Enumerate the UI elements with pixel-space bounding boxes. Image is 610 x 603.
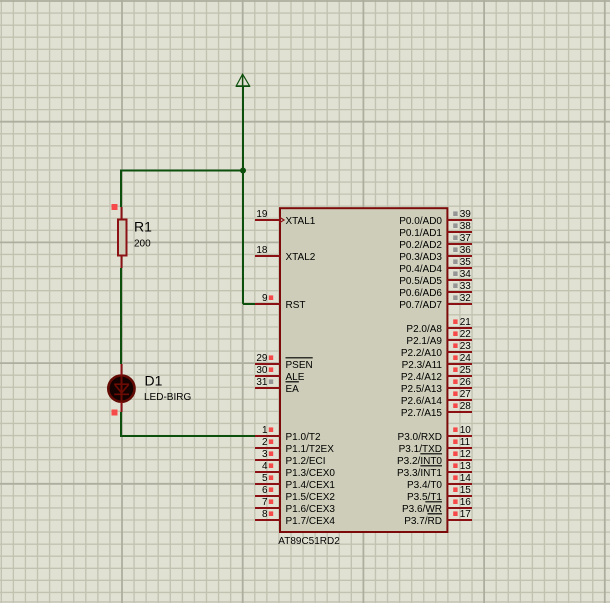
- svg-text:33: 33: [460, 281, 472, 292]
- svg-text:21: 21: [460, 317, 472, 328]
- svg-text:P3.7/RD: P3.7/RD: [404, 516, 442, 527]
- svg-text:P0.6/AD6: P0.6/AD6: [399, 288, 442, 299]
- svg-text:EA: EA: [286, 384, 300, 395]
- svg-text:P2.2/A10: P2.2/A10: [401, 348, 443, 359]
- svg-text:P2.5/A13: P2.5/A13: [401, 384, 443, 395]
- svg-text:8: 8: [262, 509, 268, 520]
- svg-text:14: 14: [460, 473, 472, 484]
- svg-text:P0.3/AD3: P0.3/AD3: [399, 252, 442, 263]
- svg-text:P1.4/CEX1: P1.4/CEX1: [286, 480, 336, 491]
- svg-text:P2.6/A14: P2.6/A14: [401, 396, 443, 407]
- svg-text:13: 13: [460, 461, 472, 472]
- svg-text:18: 18: [256, 245, 268, 256]
- svg-text:AT89C51RD2: AT89C51RD2: [278, 536, 340, 547]
- svg-text:P1.3/CEX0: P1.3/CEX0: [286, 468, 336, 479]
- svg-text:XTAL2: XTAL2: [286, 252, 316, 263]
- svg-text:P0.2/AD2: P0.2/AD2: [399, 240, 442, 251]
- svg-text:39: 39: [460, 209, 472, 220]
- svg-text:P0.4/AD4: P0.4/AD4: [399, 264, 442, 275]
- svg-text:17: 17: [460, 509, 472, 520]
- svg-text:200: 200: [134, 238, 151, 249]
- svg-text:P0.1/AD1: P0.1/AD1: [399, 228, 442, 239]
- svg-text:38: 38: [460, 221, 472, 232]
- svg-text:P2.1/A9: P2.1/A9: [406, 336, 442, 347]
- svg-text:15: 15: [460, 485, 472, 496]
- svg-text:6: 6: [262, 485, 268, 496]
- svg-text:P1.2/ECI: P1.2/ECI: [286, 456, 326, 467]
- svg-text:P1.0/T2: P1.0/T2: [286, 432, 321, 443]
- svg-text:5: 5: [262, 473, 268, 484]
- svg-text:P2.7/A15: P2.7/A15: [401, 408, 443, 419]
- svg-text:36: 36: [460, 245, 472, 256]
- svg-text:3: 3: [262, 449, 268, 460]
- svg-text:31: 31: [256, 377, 268, 388]
- svg-text:P2.3/A11: P2.3/A11: [402, 360, 443, 371]
- svg-text:P3.4/T0: P3.4/T0: [407, 480, 442, 491]
- svg-text:2: 2: [262, 437, 268, 448]
- svg-text:D1: D1: [145, 373, 163, 389]
- svg-text:P1.1/T2EX: P1.1/T2EX: [286, 444, 335, 455]
- svg-text:P1.7/CEX4: P1.7/CEX4: [286, 516, 336, 527]
- svg-text:7: 7: [262, 497, 268, 508]
- svg-text:19: 19: [256, 209, 268, 220]
- svg-text:PSEN: PSEN: [286, 360, 313, 371]
- svg-text:29: 29: [256, 353, 268, 364]
- svg-text:27: 27: [460, 389, 472, 400]
- svg-text:R1: R1: [134, 219, 152, 235]
- svg-text:10: 10: [460, 425, 472, 436]
- svg-text:P0.7/AD7: P0.7/AD7: [399, 300, 442, 311]
- svg-text:11: 11: [460, 437, 471, 448]
- svg-text:12: 12: [460, 449, 472, 460]
- svg-text:24: 24: [460, 353, 472, 364]
- svg-text:22: 22: [460, 329, 472, 340]
- svg-text:P3.3/INT1: P3.3/INT1: [397, 468, 442, 479]
- svg-text:4: 4: [262, 461, 268, 472]
- svg-text:P1.6/CEX3: P1.6/CEX3: [286, 504, 336, 515]
- svg-text:P0.0/AD0: P0.0/AD0: [399, 216, 442, 227]
- svg-text:32: 32: [460, 293, 472, 304]
- svg-text:LED-BIRG: LED-BIRG: [144, 392, 191, 403]
- svg-text:P2.4/A12: P2.4/A12: [401, 372, 443, 383]
- svg-text:25: 25: [460, 365, 472, 376]
- svg-text:1: 1: [262, 425, 268, 436]
- svg-text:P2.0/A8: P2.0/A8: [406, 324, 442, 335]
- svg-text:P1.5/CEX2: P1.5/CEX2: [286, 492, 336, 503]
- svg-text:26: 26: [460, 377, 472, 388]
- svg-text:9: 9: [262, 293, 268, 304]
- svg-text:30: 30: [256, 365, 268, 376]
- svg-text:XTAL1: XTAL1: [286, 216, 316, 227]
- svg-text:28: 28: [460, 401, 472, 412]
- svg-text:RST: RST: [286, 300, 306, 311]
- svg-text:37: 37: [460, 233, 472, 244]
- svg-text:34: 34: [460, 269, 472, 280]
- svg-text:P3.0/RXD: P3.0/RXD: [398, 432, 442, 443]
- svg-text:16: 16: [460, 497, 472, 508]
- svg-text:35: 35: [460, 257, 472, 268]
- svg-text:23: 23: [460, 341, 472, 352]
- svg-text:P0.5/AD5: P0.5/AD5: [399, 276, 442, 287]
